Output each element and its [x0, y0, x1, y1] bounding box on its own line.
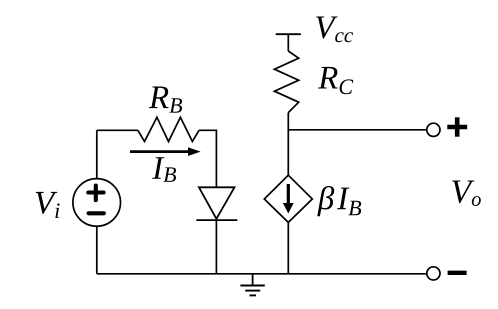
label Vi — [36, 192, 60, 218]
output terminal bottom circle — [427, 267, 440, 280]
ground stub — [252, 274, 254, 286]
wire left vertical from top wire to Vi source — [96, 130, 98, 178]
wire from Vi bottom to ground rail — [96, 226, 98, 274]
minus sign inside Vi — [89, 211, 104, 215]
plus sign inside Vi — [88, 186, 103, 201]
wire Vcc bar to RC — [287, 34, 289, 51]
resistor RC — [274, 51, 298, 113]
minus output sign — [448, 271, 467, 275]
wire RB right corner down to diode — [199, 130, 216, 187]
current source arrow — [283, 184, 294, 214]
bottom rail wire — [97, 273, 427, 275]
label IB — [152, 157, 176, 182]
voltage source Vi circle — [73, 179, 121, 227]
label RB — [149, 87, 182, 113]
label Vcc — [316, 17, 353, 43]
diode D1 cathode bar — [196, 219, 237, 221]
label RC — [318, 67, 353, 94]
wire RC down through node to current source — [287, 113, 289, 176]
label beta IB — [317, 186, 361, 216]
output terminal top circle — [427, 123, 440, 136]
label Vo — [452, 181, 481, 207]
ground — [240, 286, 264, 296]
wire current source to bottom rail — [287, 222, 289, 273]
resistor RB — [138, 117, 199, 141]
arrow IB — [130, 147, 201, 156]
diode D1 triangle — [199, 187, 235, 219]
wire top-left horizontal from Vi to RB — [97, 129, 138, 131]
node junction wire to + terminal — [288, 129, 427, 131]
plus output sign — [447, 117, 467, 136]
dependent current source diamond — [264, 175, 312, 222]
Vcc supply bar — [276, 33, 301, 35]
wire diode to bottom rail — [215, 220, 217, 274]
